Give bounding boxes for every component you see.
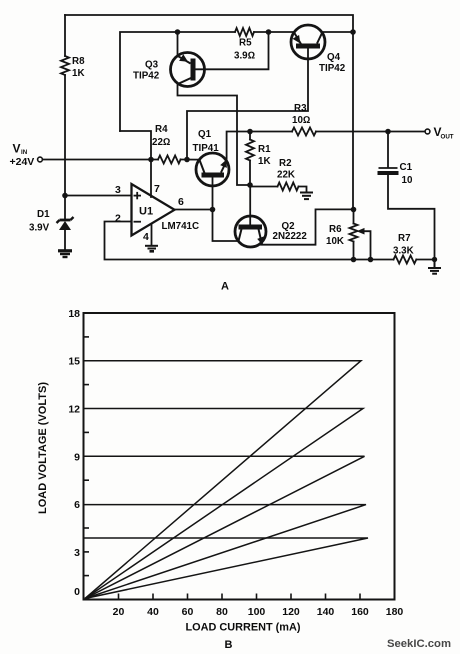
svg-text:6: 6 xyxy=(74,499,80,511)
curve 6V xyxy=(84,505,367,599)
wire Q2 collector lead xyxy=(249,185,251,225)
ground U1 pin4 xyxy=(145,246,158,252)
svg-text:9: 9 xyxy=(74,451,80,463)
ground bottom right xyxy=(428,260,441,274)
svg-text:LOAD VOLTAGE (VOLTS): LOAD VOLTAGE (VOLTS) xyxy=(37,382,49,514)
svg-text:10Ω: 10Ω xyxy=(292,115,310,126)
svg-text:100: 100 xyxy=(248,606,266,618)
wire Q3 collector drop xyxy=(178,83,251,185)
wire opamp pin3 xyxy=(65,195,132,197)
svg-text:R7: R7 xyxy=(398,233,411,244)
svg-text:R1: R1 xyxy=(258,144,271,155)
svg-text:OUT: OUT xyxy=(441,134,454,141)
wire R5 to Q4 xyxy=(254,31,293,33)
wire R7 to corner ground xyxy=(417,259,435,261)
plot box xyxy=(84,313,395,600)
svg-text:22K: 22K xyxy=(277,170,295,181)
wire left vertical top xyxy=(64,15,66,56)
wire R6 bottom lead xyxy=(353,242,355,260)
svg-text:LM741C: LM741C xyxy=(162,221,200,232)
svg-text:1K: 1K xyxy=(72,68,85,79)
svg-text:IN: IN xyxy=(21,149,28,156)
svg-text:40: 40 xyxy=(147,606,159,618)
svg-text:120: 120 xyxy=(282,606,300,618)
capacitor C1 xyxy=(378,168,399,173)
wire top rail xyxy=(65,15,353,210)
svg-text:12: 12 xyxy=(68,404,80,416)
wire R1 top lead xyxy=(249,132,251,140)
wire bottom feedback rail xyxy=(105,222,394,260)
wire opamp pin7 xyxy=(150,160,152,198)
svg-text:3.9Ω: 3.9Ω xyxy=(234,51,255,62)
wire Q4 collector to rail xyxy=(323,31,354,33)
svg-text:1K: 1K xyxy=(258,156,271,167)
wire Q3 base to R5 node xyxy=(194,32,269,69)
resistor R7 xyxy=(394,256,417,264)
svg-text:2: 2 xyxy=(115,213,121,225)
node C1 tap xyxy=(385,129,391,135)
svg-text:2N2222: 2N2222 xyxy=(273,231,308,242)
wire pot R6 top lead xyxy=(353,210,355,224)
svg-text:4: 4 xyxy=(143,231,149,243)
svg-text:80: 80 xyxy=(216,606,228,618)
wire R3 to Vout terminal xyxy=(316,131,425,133)
svg-text:180: 180 xyxy=(386,606,404,618)
resistor R2 xyxy=(278,183,299,191)
svg-text:C1: C1 xyxy=(400,162,413,173)
svg-text:20: 20 xyxy=(113,606,125,618)
wire opamp output node to Q2 base xyxy=(213,210,239,242)
resistor R8 xyxy=(61,56,69,75)
svg-text:R2: R2 xyxy=(279,158,292,169)
svg-text:V: V xyxy=(13,142,21,156)
svg-text:R6: R6 xyxy=(329,224,342,235)
svg-text:U1: U1 xyxy=(139,206,153,218)
wire C1 top lead xyxy=(387,132,389,168)
svg-text:3.9V: 3.9V xyxy=(29,223,50,234)
svg-text:0: 0 xyxy=(74,586,80,598)
node wiper bottom xyxy=(368,257,374,263)
svg-text:LOAD CURRENT (mA): LOAD CURRENT (mA) xyxy=(186,622,301,634)
svg-text:22Ω: 22Ω xyxy=(152,137,170,148)
node opamp output xyxy=(210,207,216,213)
wire Q1 emitter up xyxy=(227,132,250,161)
svg-text:R5: R5 xyxy=(239,38,252,49)
node R1 top xyxy=(247,129,253,135)
svg-text:10K: 10K xyxy=(326,236,344,247)
resistor R1 xyxy=(246,140,254,161)
svg-text:R3: R3 xyxy=(294,103,307,114)
opamp plus xyxy=(134,192,142,222)
x ticks xyxy=(119,594,361,600)
node R6 top xyxy=(351,207,357,213)
wire Vout row xyxy=(250,131,292,133)
ground R2 xyxy=(300,193,313,200)
svg-text:18: 18 xyxy=(68,308,80,320)
wire Vin row xyxy=(43,159,159,161)
svg-text:3: 3 xyxy=(74,547,80,559)
zener D1 xyxy=(57,217,74,230)
wire R2 to ground xyxy=(299,187,307,192)
wire opamp pin6 xyxy=(175,209,213,211)
wire Q3 emitter drop xyxy=(177,32,179,56)
node R1 bottom xyxy=(247,182,253,188)
wire R1 bottom lead xyxy=(249,161,251,186)
op-amp U1 xyxy=(132,184,175,236)
svg-text:Q1: Q1 xyxy=(198,129,212,140)
transistor Q4 xyxy=(291,25,325,59)
svg-text:Q4: Q4 xyxy=(327,52,341,63)
svg-text:60: 60 xyxy=(182,606,194,618)
resistor R3 xyxy=(292,128,316,136)
terminal Vin xyxy=(38,157,43,162)
wire D1 top lead xyxy=(64,196,66,221)
transistor Q1 xyxy=(196,153,229,210)
curve 9V xyxy=(84,456,365,598)
svg-text:B: B xyxy=(225,639,233,651)
terminal Vout xyxy=(425,129,430,134)
y minor ticks xyxy=(84,337,90,576)
svg-text:15: 15 xyxy=(68,356,80,368)
svg-text:6: 6 xyxy=(178,196,184,208)
node R5 right xyxy=(266,29,272,35)
svg-text:160: 160 xyxy=(351,606,369,618)
wire R2 lead xyxy=(250,186,278,188)
curve 15V xyxy=(84,361,362,599)
transistor Q2 xyxy=(235,216,266,247)
resistor R6 xyxy=(350,224,358,242)
svg-text:3: 3 xyxy=(115,184,121,196)
node Q3 emitter rail xyxy=(175,29,181,35)
node Q4 collector rail xyxy=(350,29,356,35)
transistor Q3 xyxy=(171,53,205,87)
svg-text:140: 140 xyxy=(317,606,335,618)
pot R6 wiper arrow xyxy=(357,228,365,235)
curve 3.9V xyxy=(84,538,369,599)
wire R4 to Q1 xyxy=(181,159,200,161)
wire R6 wiper xyxy=(364,231,371,259)
wire D1 bottom lead xyxy=(64,230,66,250)
svg-text:D1: D1 xyxy=(37,209,50,220)
svg-text:SeekIC.com: SeekIC.com xyxy=(387,638,451,650)
svg-text:R8: R8 xyxy=(72,56,85,67)
resistor R4 xyxy=(158,156,181,164)
node R6 bottom xyxy=(351,257,357,263)
svg-text:TIP42: TIP42 xyxy=(133,71,160,82)
svg-text:Q3: Q3 xyxy=(145,60,159,71)
node R4 Q1 base xyxy=(184,157,190,163)
svg-text:TIP42: TIP42 xyxy=(319,63,346,74)
node D1 pin3 xyxy=(62,193,68,199)
svg-text:7: 7 xyxy=(154,183,160,195)
svg-text:TIP41: TIP41 xyxy=(193,143,220,154)
svg-text:R4: R4 xyxy=(155,124,168,135)
wire Q2 emitter to R6 top xyxy=(261,209,354,244)
svg-text:A: A xyxy=(221,281,229,293)
curve 12V xyxy=(84,409,364,599)
svg-text:3.3K: 3.3K xyxy=(393,246,414,257)
svg-text:+24V: +24V xyxy=(10,156,35,168)
ground D1 xyxy=(58,251,72,257)
wire Q4 base run xyxy=(187,49,308,160)
wire opamp pin4 xyxy=(151,225,153,246)
wire R8 bottom to node xyxy=(64,75,66,196)
wire inner left jog xyxy=(120,131,151,160)
svg-text:10: 10 xyxy=(402,175,413,186)
node pin7 junction xyxy=(148,157,154,163)
wire C1 branch xyxy=(388,175,435,260)
wire inner top xyxy=(120,32,235,131)
resistor R5 xyxy=(235,28,254,36)
